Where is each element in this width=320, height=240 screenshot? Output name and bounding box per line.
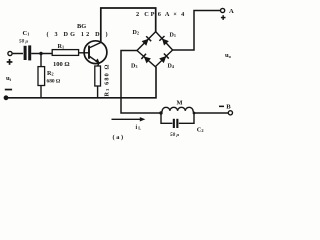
- capacitor C1: [24, 46, 27, 60]
- terminal + (input, top-left): [8, 51, 12, 55]
- svg-text:A: A: [229, 8, 234, 15]
- svg-text:R1: R1: [58, 43, 65, 50]
- node (choke input): [159, 111, 162, 114]
- capacitor C2 branch: [161, 113, 172, 123]
- capacitor C2: [173, 119, 175, 128]
- svg-text:C2: C2: [197, 126, 204, 133]
- bottom rail wire: [6, 67, 156, 98]
- wire R2 to rail: [40, 86, 42, 99]
- wire: [79, 52, 89, 54]
- svg-text:2 CP: 2 CP: [136, 11, 155, 18]
- node (R2 tap): [39, 52, 42, 55]
- label + (A): [221, 17, 226, 19]
- resistor R2: [38, 67, 45, 86]
- svg-text:D3: D3: [131, 63, 137, 69]
- svg-text:R3 680 Ω: R3 680 Ω: [104, 64, 111, 96]
- svg-text:D1: D1: [170, 33, 176, 39]
- wire R2 drop: [40, 54, 42, 67]
- wire R3 to rail: [97, 86, 99, 98]
- bridge right wire to A: [173, 11, 221, 51]
- svg-text:C1: C1: [23, 30, 30, 37]
- svg-text:6 A × 4: 6 A × 4: [158, 11, 185, 18]
- label minus (B): [219, 106, 224, 108]
- bridge left wire to common: [121, 51, 161, 114]
- svg-text:i L: i L: [136, 125, 142, 131]
- diode D1: [159, 36, 169, 46]
- svg-text:B: B: [226, 103, 231, 110]
- resistor R3 (emitter): [95, 66, 101, 86]
- emitter wire: [98, 63, 99, 67]
- label + (input): [7, 61, 13, 63]
- svg-text:uo: uo: [225, 52, 232, 59]
- resistor R1: [52, 50, 78, 56]
- svg-text:BG: BG: [77, 23, 86, 30]
- diode D3: [141, 54, 151, 64]
- svg-text:100 Ω: 100 Ω: [53, 61, 70, 68]
- terminal A: [221, 8, 225, 12]
- label minus (input): [5, 89, 12, 91]
- inductor M: [161, 107, 194, 113]
- wire: [13, 53, 23, 55]
- svg-text:ui: ui: [6, 75, 12, 82]
- node (choke output): [193, 112, 196, 115]
- wire to B: [194, 112, 228, 114]
- collector riser wire: [101, 8, 156, 43]
- svg-text:M: M: [177, 100, 183, 107]
- svg-text:R2: R2: [47, 70, 54, 77]
- transistor BG: [84, 41, 107, 64]
- diode D2: [141, 36, 151, 46]
- bridge diamond wires: [137, 32, 173, 67]
- wire: [31, 53, 52, 55]
- terminal B: [228, 111, 232, 115]
- svg-text:( 3 DG 12 D ): ( 3 DG 12 D ): [47, 31, 108, 38]
- svg-text:D4: D4: [168, 64, 175, 70]
- svg-text:D2: D2: [133, 30, 139, 36]
- svg-text:( a ): ( a ): [113, 134, 124, 141]
- terminal - (input, bottom-left): [4, 95, 9, 100]
- svg-text:680 Ω: 680 Ω: [47, 79, 61, 85]
- diode D4: [159, 54, 169, 64]
- current arrow iL: [112, 118, 142, 120]
